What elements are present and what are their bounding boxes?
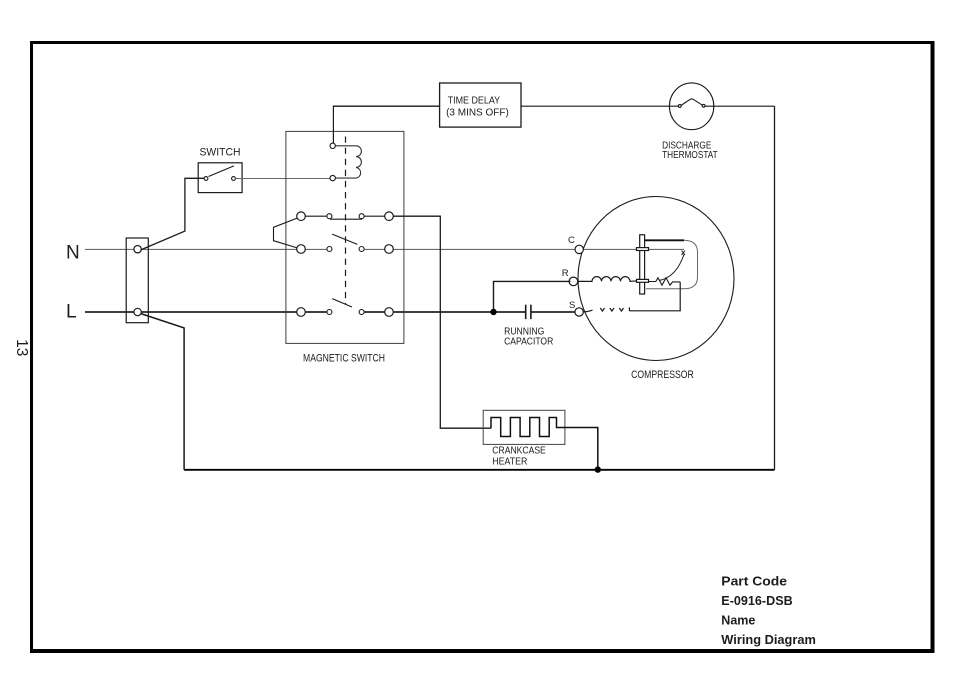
switch S1 — [198, 163, 242, 193]
page number 13 — [13, 339, 30, 356]
wire thermostat to right bus — [705, 105, 775, 107]
svg-text:C: C — [568, 235, 575, 246]
svg-text:(3 MINS OFF): (3 MINS OFF) — [446, 106, 509, 118]
wire bottom bus — [184, 469, 774, 471]
node L — [66, 302, 77, 323]
contactor contact row 2 — [297, 234, 394, 253]
compressor start winding — [583, 282, 680, 312]
crankcase heater label — [492, 445, 546, 468]
contactor coil K1 — [330, 143, 361, 181]
wire N terminal to switch — [141, 178, 205, 250]
svg-text:13: 13 — [13, 339, 30, 356]
compressor terminal C — [568, 235, 583, 254]
wire N line — [85, 248, 684, 250]
contactor linkage (dashed) — [345, 137, 347, 305]
time delay relay TD1 — [440, 83, 521, 127]
wire time delay to thermostat — [521, 105, 679, 107]
svg-text:COMPRESSOR: COMPRESSOR — [631, 369, 694, 381]
wire L to R terminal branch — [494, 281, 571, 312]
magnetic switch enclosure — [286, 131, 404, 343]
junction dot L/R branch — [490, 309, 496, 315]
discharge thermostat TH1 — [669, 83, 713, 130]
node N — [66, 242, 80, 263]
svg-text:R: R — [562, 268, 569, 279]
svg-text:Part Code: Part Code — [721, 573, 787, 588]
compressor shell — [578, 197, 734, 361]
running capacitor C1 — [526, 305, 531, 319]
compressor label — [631, 369, 694, 381]
compressor internal loop wire — [645, 240, 698, 288]
svg-text:E-0916-DSB: E-0916-DSB — [721, 593, 792, 608]
wire L terminal to bottom bus — [141, 314, 185, 470]
svg-text:HEATER: HEATER — [492, 456, 527, 468]
compressor internal resistor — [649, 278, 681, 285]
wire switch output to coil — [235, 178, 330, 180]
svg-text:N: N — [66, 242, 80, 263]
terminal block TB1 — [126, 238, 148, 323]
compressor terminal R — [562, 268, 578, 286]
svg-text:S: S — [569, 300, 575, 311]
wire row1 to crankcase heater — [393, 216, 491, 428]
svg-text:L: L — [66, 302, 77, 323]
contactor contact row 3 — [297, 299, 394, 317]
crankcase heater HR1 — [483, 410, 598, 470]
compressor internal protector bar — [637, 235, 649, 294]
discharge thermostat label — [662, 139, 718, 161]
svg-text:TIME DELAY: TIME DELAY — [448, 94, 500, 106]
svg-text:CAPACITOR: CAPACITOR — [504, 335, 554, 347]
switch S1 label — [200, 147, 241, 159]
running capacitor label — [504, 326, 554, 348]
title block text — [721, 573, 816, 647]
svg-text:THERMOSTAT: THERMOSTAT — [662, 149, 718, 161]
wire right bus — [774, 106, 776, 470]
junction dot heater to bottom bus — [595, 466, 601, 472]
contactor contact row 1 — [297, 212, 394, 221]
svg-text:Name: Name — [721, 613, 755, 628]
wire time delay to coil top — [333, 106, 440, 143]
compressor internal bimetal arm — [659, 255, 684, 281]
compressor internal contact mark — [682, 251, 686, 256]
compressor run winding — [578, 277, 637, 282]
magnetic switch label — [303, 353, 385, 365]
jumper wire row1 to row2 — [274, 218, 298, 248]
svg-text:SWITCH: SWITCH — [200, 147, 241, 159]
svg-text:MAGNETIC SWITCH: MAGNETIC SWITCH — [303, 353, 385, 365]
svg-text:Wiring Diagram: Wiring Diagram — [721, 632, 816, 647]
wire L line — [85, 311, 577, 313]
compressor terminal S — [569, 300, 583, 316]
